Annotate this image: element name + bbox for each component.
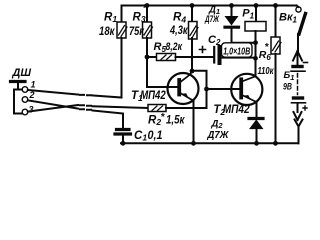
svg-text:8,2к: 8,2к	[166, 41, 184, 53]
resistor R6	[271, 37, 281, 54]
wire R6 bottom to rail	[275, 54, 277, 143]
svg-text:R2: R2	[148, 114, 161, 127]
connector fork upper	[293, 51, 302, 64]
transistor T1	[168, 71, 199, 104]
wire R5 right lead to C2 left plate	[176, 56, 214, 58]
svg-text:R6: R6	[259, 49, 272, 62]
wire T1 emitter down to rail	[193, 101, 195, 143]
sensor bracket	[14, 90, 23, 114]
resistor R1	[117, 22, 127, 38]
terminal 3 circle	[22, 109, 28, 115]
svg-text:*: *	[143, 3, 148, 15]
transistor T2	[231, 74, 262, 105]
wire C1 bottom to rail	[122, 136, 124, 144]
wire R4 bottom to T1 collector node	[191, 38, 193, 71]
svg-text:МП42: МП42	[140, 90, 166, 102]
node T1 emitter at bottom rail	[191, 141, 196, 146]
svg-text:ДШ: ДШ	[12, 67, 32, 79]
battery Б1 cell2 positive plate	[292, 102, 306, 104]
node T1 collector junction	[190, 69, 195, 74]
svg-text:110к: 110к	[258, 65, 274, 77]
svg-text:Д2: Д2	[211, 118, 224, 130]
svg-text:1,5к: 1,5к	[166, 114, 185, 126]
label C2 plus sign	[200, 47, 206, 53]
wire top rail right corner to switch	[297, 6, 299, 8]
wire terminal2 line to R2	[93, 106, 149, 108]
svg-text:4,3к: 4,3к	[169, 23, 188, 37]
label plus	[303, 106, 307, 110]
terminal 2 circle	[22, 97, 28, 103]
svg-text:С2: С2	[208, 34, 221, 47]
svg-text:1: 1	[31, 80, 36, 90]
sensor probe bar	[11, 80, 26, 83]
svg-text:75к: 75к	[129, 24, 145, 38]
capacitor C2	[214, 47, 219, 63]
node R4 top junction	[190, 3, 195, 8]
node base junction	[204, 87, 209, 92]
node R6 at bottom rail	[273, 141, 278, 146]
svg-text:Р1: Р1	[242, 8, 254, 21]
svg-text:0,1: 0,1	[148, 130, 163, 142]
wire T2 base	[207, 88, 240, 90]
diode Д1	[225, 6, 239, 43]
node C2 wire at collector vertical	[253, 56, 258, 61]
battery Б1 cell1 negative plate	[293, 65, 302, 68]
wire R3 branch vertical top	[146, 6, 148, 23]
svg-text:9В: 9В	[283, 81, 292, 92]
wire switch to battery connector	[297, 34, 299, 52]
wire R5 left lead	[147, 56, 157, 58]
diode Д2	[249, 102, 263, 143]
relay coil P1	[245, 22, 266, 32]
wire R1 branch vertical top	[121, 6, 123, 23]
node Д1 wire at collector vertical	[253, 40, 258, 45]
terminal 1 circle	[22, 87, 28, 93]
wire Д1 node horizontal to collector vertical	[232, 42, 256, 44]
wire terminal 2 line crossing down	[28, 100, 78, 108]
node P1 top junction	[254, 3, 259, 8]
wire R6 top lead	[275, 6, 277, 38]
wire T1 collector node to base column	[192, 71, 207, 108]
resistor R3	[143, 22, 153, 38]
svg-text:Б1: Б1	[284, 70, 295, 82]
connector fork lower	[295, 120, 303, 144]
node R6 top junction	[273, 3, 278, 8]
node R3 top junction	[145, 3, 150, 8]
svg-text:*: *	[161, 112, 166, 123]
wire terminal 1 line	[28, 90, 78, 95]
resistor R4	[189, 22, 199, 40]
wire R3 bottom to T1 base	[147, 38, 178, 87]
resistor R5	[157, 54, 176, 61]
svg-text:Д7Ж: Д7Ж	[207, 130, 230, 141]
label minus	[304, 62, 308, 64]
cable break dashes line 1	[80, 94, 91, 96]
wire P1 bottom to T2 collector	[255, 31, 257, 77]
svg-text:Вк1: Вк1	[279, 12, 298, 25]
wire C2 right plate to collector vertical	[222, 57, 256, 59]
switch Вк1 blade	[299, 14, 306, 35]
label C2 value box 1,0×10В	[222, 43, 253, 58]
battery Б1 dashed middle	[297, 74, 299, 95]
capacitor C1	[115, 130, 131, 135]
svg-text:С1: С1	[134, 130, 147, 143]
cable break dashes line 3	[80, 108, 91, 111]
wire R2 right lead to base column	[166, 107, 207, 109]
svg-text:Д7Ж: Д7Ж	[204, 14, 219, 25]
wire R4 branch vertical top	[191, 6, 193, 22]
wire T2 emitter down to diode	[256, 102, 258, 118]
node C1 at bottom rail	[121, 141, 126, 146]
node Д2 at bottom rail	[254, 141, 259, 146]
svg-text:18к: 18к	[99, 24, 115, 38]
svg-text:R1: R1	[104, 11, 117, 24]
wire bottom rail	[121, 142, 299, 144]
svg-text:МП42: МП42	[223, 104, 251, 116]
node R5 tap on R3 wire	[145, 55, 150, 60]
wire terminal3 line to C1	[93, 111, 124, 129]
svg-text:3: 3	[29, 105, 34, 115]
wire P1 coil top lead	[255, 6, 257, 22]
cable break dashes line 2	[80, 104, 91, 107]
sensor probe stem	[14, 83, 22, 90]
switch Вк1 contact circle	[296, 7, 301, 12]
wire top rail	[122, 5, 297, 7]
wire R1 bottom to terminal line	[93, 38, 122, 98]
svg-text:1,0×10В: 1,0×10В	[223, 47, 250, 58]
resistor R2	[148, 105, 166, 112]
svg-text:R5: R5	[154, 41, 167, 54]
node Д1 top junction	[229, 3, 234, 8]
battery bottom pin arrow	[294, 104, 302, 120]
battery Б1 cell2 negative plate	[294, 96, 303, 99]
wire terminal 3 line crossing up	[28, 105, 78, 112]
battery Б1 cell1 positive plate	[291, 70, 305, 72]
